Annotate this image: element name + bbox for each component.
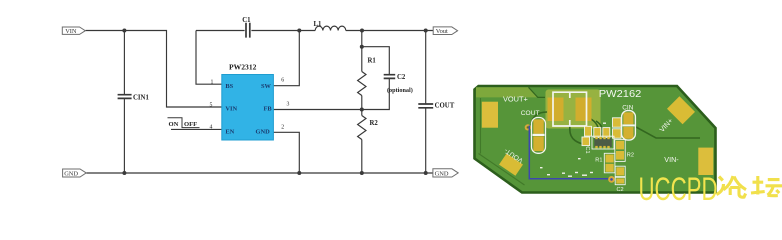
junction pin2 gnd [297, 171, 301, 175]
svg-text:1: 1 [211, 80, 214, 86]
svg-text:3: 3 [287, 102, 290, 108]
wire top rail left of C1 [196, 30, 245, 32]
PCB pads pair left of CIN [613, 118, 622, 138]
wire GND pin2 [273, 132, 299, 173]
svg-text:CIN1: CIN1 [133, 95, 149, 102]
capacitor COUT plates [418, 104, 433, 108]
junction COUT gnd [424, 171, 428, 175]
svg-text:GND: GND [435, 170, 449, 177]
svg-text:5: 5 [210, 102, 213, 108]
capacitor C1 plates [246, 23, 250, 38]
PCB resistor R1 footprint [604, 153, 615, 173]
PCB IC footprint U1 [592, 136, 614, 149]
op-amp U1: IC PW2312 body [222, 75, 274, 141]
capacitor C2 plates [384, 75, 396, 79]
wire FB pin3 [273, 109, 361, 111]
junction R2 gnd [360, 171, 364, 175]
PCB zone footprint L pour [546, 90, 601, 129]
PCB zone top-left pour [476, 87, 538, 97]
PCB zone boundary line [529, 87, 546, 97]
PCB footprint L silkscreen [553, 92, 587, 126]
svg-text:GND: GND [64, 170, 78, 177]
svg-text:R1: R1 [368, 58, 377, 65]
junction SW node [297, 29, 301, 33]
wire SW pin6 riser [273, 31, 299, 86]
svg-text:BS: BS [225, 83, 233, 90]
port tag GND right [433, 169, 458, 177]
wire VIN to pin5 riser [86, 31, 222, 108]
svg-text:C2: C2 [617, 187, 624, 193]
ON OFF switch waveform [168, 118, 200, 128]
inductor L1 [315, 26, 346, 30]
PCB pads pair left of cluster C1 [582, 137, 590, 146]
PCB board outline [475, 86, 716, 193]
svg-text:C1: C1 [242, 17, 251, 24]
svg-text:VOUT+: VOUT+ [503, 95, 528, 104]
svg-text:C2: C2 [397, 74, 406, 81]
wire R2 to rail [361, 140, 363, 174]
wire COUT bottom [425, 108, 427, 173]
junction divider top node [360, 29, 364, 33]
port tag VIN [62, 27, 85, 34]
wire divider top [361, 31, 363, 72]
watermark CJK lun [717, 176, 747, 197]
PCB pad top-right chamfer VIN+ [667, 96, 695, 124]
svg-text:EN: EN [225, 129, 234, 136]
PCB capacitor CIN footprint [622, 111, 636, 141]
svg-text:6: 6 [281, 78, 284, 84]
wire BS loop left [196, 31, 222, 85]
svg-text:Vout: Vout [436, 28, 448, 35]
svg-text:PW2312: PW2312 [229, 63, 257, 72]
PCB footprint L pads [548, 98, 564, 122]
PCB blue trace [529, 126, 610, 179]
svg-text:PW2162: PW2162 [599, 89, 642, 100]
svg-text:ON: ON [169, 121, 179, 128]
svg-text:FB: FB [264, 106, 273, 113]
junction Vout node [424, 29, 428, 33]
resistor R2 [358, 116, 366, 140]
svg-text:4: 4 [210, 125, 213, 131]
PCB trace right of CIN [596, 121, 700, 138]
wire CIN1 top [123, 31, 125, 95]
svg-text:C1: C1 [584, 146, 590, 153]
capacitor CIN1 plates [118, 95, 132, 99]
svg-text:SW: SW [261, 83, 272, 90]
resistor R1 [358, 72, 366, 96]
svg-text:COUT: COUT [521, 110, 540, 117]
PCB silkscreen speckles [540, 123, 606, 177]
svg-text:R2: R2 [627, 152, 634, 158]
svg-text:VIN-: VIN- [664, 155, 679, 164]
svg-text:OFF: OFF [184, 121, 197, 128]
svg-text:(optional): (optional) [387, 87, 413, 94]
PCB capacitor C2 footprint [615, 166, 625, 185]
junction VIN node [122, 29, 126, 33]
wire C2 branch bottom [362, 78, 390, 109]
wire GND rail [86, 172, 433, 174]
PCB pad VOUT+ [482, 102, 498, 128]
port tag Vout [433, 27, 457, 35]
svg-text:VIN: VIN [65, 28, 77, 35]
junction FB node [360, 108, 364, 112]
svg-text:CIN: CIN [622, 104, 633, 111]
svg-text:UCCPD: UCCPD [639, 171, 718, 203]
PCB pad right edge VIN- [698, 148, 713, 175]
PCB via 2 [608, 176, 615, 183]
svg-text:GND: GND [256, 129, 271, 136]
svg-text:COUT: COUT [435, 103, 455, 110]
svg-text:R2: R2 [370, 120, 379, 127]
svg-text:L1: L1 [314, 21, 323, 28]
junction C2 top node [360, 45, 364, 49]
PCB inner keepout line left [479, 98, 525, 185]
svg-text:R1: R1 [595, 157, 602, 163]
wire top rail L1 to Vout [346, 30, 433, 32]
wire R1 to FB node [361, 96, 363, 116]
PCB pad bottom-left chamfer VOUT- [499, 153, 523, 175]
watermark CJK tan [751, 176, 782, 196]
junction CIN1 gnd [122, 171, 126, 175]
wire CIN1 bottom [123, 98, 125, 173]
PCB capacitor COUT footprint [532, 118, 546, 154]
svg-text:VIN: VIN [225, 106, 237, 113]
wire top rail C1 to L1 [251, 30, 315, 32]
svg-text:2: 2 [281, 124, 284, 130]
PCB via near COUT [525, 124, 531, 130]
PCB trace left of footprint [531, 112, 599, 145]
PCB resistor R2 footprint [615, 140, 625, 162]
port tag GND left [63, 169, 87, 177]
PCB cluster top row pads [585, 126, 610, 137]
wire EN pin4 [171, 128, 222, 130]
wire COUT top [425, 31, 427, 104]
wire C2 branch top [362, 47, 390, 75]
